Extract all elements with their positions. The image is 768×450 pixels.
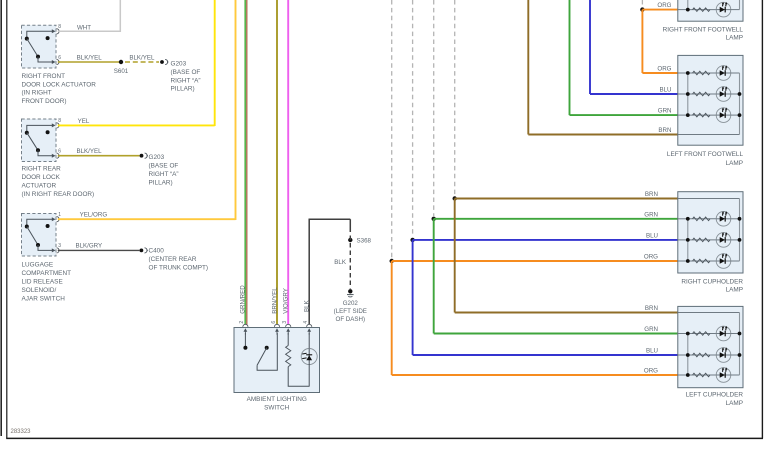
wire GRN down to left cupholder lamp [434,219,678,334]
svg-text:GRN: GRN [658,108,672,115]
svg-text:(LEFT SIDE: (LEFT SIDE [334,308,367,315]
left cupholder lamp row BLU (resistor + LED) [678,347,740,362]
lamp: right front footwell lamp (cut off at top) [678,0,743,21]
left front footwell lamp row GRN (resistor + LED) [678,108,740,123]
wire BRN to right cupholder lamp [455,198,678,200]
svg-text:G202: G202 [343,300,359,307]
right front door lock actuator pin 8 [52,29,59,34]
svg-text:BLK/YEL: BLK/YEL [76,148,102,155]
svg-text:LID RELEASE: LID RELEASE [22,279,63,286]
wire VIO/GRY vertical to ambient switch pin 3 [287,0,289,325]
wire BLK/YEL from actuator pin 6 to splice S601 [58,61,121,63]
svg-text:LUGGAGE: LUGGAGE [22,262,54,269]
svg-text:DOOR LOCK ACTUATOR: DOOR LOCK ACTUATOR [22,81,97,88]
label G203 rear (BASE OF RIGHT A PILLAR) [149,154,179,186]
wire GRN riser to left front footwell lamp [570,0,678,115]
dashed riser to ORG node (footwell) [641,0,643,7]
dashed riser wire to BRN node [454,0,456,196]
ambient switch internal switch contacts [243,333,277,370]
svg-text:BLK/YEL: BLK/YEL [77,55,103,62]
right front footwell lamp internal row ORG [678,0,740,17]
svg-text:3: 3 [58,243,61,249]
luggage compartment lid release solenoid/ajar switch internal contacts and blade [25,219,53,250]
svg-text:RIGHT REAR: RIGHT REAR [22,166,62,173]
svg-text:AMBIENT LIGHTING: AMBIENT LIGHTING [247,396,307,403]
left front footwell lamp left bus [686,71,690,117]
right cupholder lamp right bus [738,199,742,262]
lamp: right cupholder lamp [678,192,743,273]
ambient switch pin 3 [286,324,291,334]
svg-text:LAMP: LAMP [726,160,743,167]
svg-text:GRN: GRN [644,211,658,218]
wire BLU riser to left front footwell lamp [590,0,678,94]
svg-text:6: 6 [58,149,61,155]
ground G202 symbol [347,289,354,297]
svg-text:LAMP: LAMP [726,287,743,294]
node ORG junction (footwell) [640,7,644,11]
right cupholder lamp row BLU (resistor + LED) [678,232,740,247]
svg-text:6: 6 [271,321,277,324]
svg-text:SOLENOID/: SOLENOID/ [22,287,57,294]
svg-text:BLK: BLK [334,259,347,266]
svg-text:ORG: ORG [644,368,658,375]
svg-text:(IN RIGHT REAR DOOR): (IN RIGHT REAR DOOR) [22,191,95,198]
lamp: left front footwell lamp [678,55,743,145]
right cupholder lamp row GRN (resistor + LED) [678,211,740,226]
dashed riser wire to BLU node [412,0,414,237]
svg-text:BRN: BRN [645,305,658,312]
dashed riser wire to ORG node [391,0,393,258]
svg-text:LAMP: LAMP [726,35,743,42]
svg-text:FRONT DOOR): FRONT DOOR) [22,98,67,105]
label G203 (BASE OF RIGHT A PILLAR) [171,61,201,93]
svg-text:ORG: ORG [657,2,671,9]
svg-text:BLU: BLU [646,232,658,239]
svg-text:RIGHT FRONT: RIGHT FRONT [22,73,66,80]
svg-text:LEFT CUPHOLDER: LEFT CUPHOLDER [686,392,744,399]
left cupholder lamp row GRN (resistor + LED) [678,326,740,341]
left front footwell lamp row BLU (resistor + LED) [678,86,740,101]
left front footwell lamp row ORG (resistor + LED) [678,65,740,80]
svg-text:PILLAR): PILLAR) [171,86,195,93]
wire ORG to right front footwell lamp [642,9,677,11]
ground connector G203 (right rear) [140,153,148,158]
svg-text:(CENTER REAR: (CENTER REAR [149,256,197,263]
labels ORG BLU GRN BRN (left front footwell) [657,66,671,135]
svg-text:LEFT FRONT FOOTWELL: LEFT FRONT FOOTWELL [667,151,744,158]
svg-text:S601: S601 [114,68,129,75]
svg-text:COMPARTMENT: COMPARTMENT [22,270,72,277]
label: left cupholder lamp [686,392,744,407]
wire ORG to right cupholder lamp [392,260,678,262]
wire ORG down to left front footwell lamp [642,10,677,73]
svg-text:BLU: BLU [659,87,671,94]
ambient lighting switch box [234,328,320,393]
svg-text:1: 1 [58,212,61,218]
dashed riser wire to GRN node [433,0,435,216]
left cupholder lamp left bus [686,332,690,377]
left cupholder lamp right bus [738,313,742,376]
wire BRN/YEL vertical to ambient switch pin 6 [276,0,278,325]
label G202 (LEFT SIDE OF DASH) [334,300,367,323]
ambient switch pin 4 [307,324,312,334]
splice S601 [119,60,123,64]
label: ambient lighting switch [247,396,307,411]
svg-text:4: 4 [303,321,309,324]
svg-text:G203: G203 [149,154,165,161]
svg-text:LAMP: LAMP [726,400,743,407]
svg-text:VIO/GRY: VIO/GRY [283,288,290,314]
wire BLU down to left cupholder lamp [413,240,678,355]
switch: right front door lock actuator box [22,25,57,68]
right cupholder lamp row BRN feed wire [678,198,740,200]
wire BLK/GRY from solenoid pin 3 to C400 [58,249,140,251]
node ORG junction [390,259,394,263]
ambient switch pin 6 [274,324,279,334]
right cupholder lamp left bus [686,217,690,263]
svg-text:3: 3 [282,321,288,324]
left cupholder lamp row BRN feed wire [678,312,740,314]
dashed wire BLK from S368 to G202 [349,236,351,289]
svg-text:GRN/RED: GRN/RED [239,285,246,314]
svg-text:GRN: GRN [644,326,658,333]
svg-text:(BASE OF: (BASE OF [149,163,179,170]
svg-text:BLK/YEL: BLK/YEL [129,55,155,62]
svg-text:8: 8 [58,118,61,124]
svg-text:BLU: BLU [646,348,658,355]
svg-text:BLK: BLK [304,299,311,312]
label: right front door lock actuator [22,73,97,105]
label: right cupholder lamp [681,278,743,293]
luggage compartment lid release solenoid/ajar switch pin 3 [52,248,59,253]
svg-text:BLK/GRY: BLK/GRY [75,243,102,250]
svg-text:YEL: YEL [78,118,90,125]
wire YEL/ORG from solenoid pin 1 [58,0,236,220]
node BLU junction [410,238,414,242]
svg-text:(BASE OF: (BASE OF [171,69,201,76]
svg-text:YEL/ORG: YEL/ORG [80,212,108,219]
right rear door lock actuator internal contacts and blade [25,125,53,155]
label C400 (CENTER REAR OF TRUNK COMPT) [149,248,209,272]
left front footwell lamp row BRN return wire [678,134,740,136]
svg-text:BRN: BRN [645,191,658,198]
svg-text:ORG: ORG [657,66,671,73]
right rear door lock actuator pin 6 [52,153,59,158]
svg-text:283323: 283323 [11,429,32,435]
svg-text:2: 2 [239,321,245,324]
svg-text:BRN: BRN [658,127,671,134]
node GRN junction [432,217,436,221]
wire GRN/RED vertical to ambient switch pin 2 [245,0,247,325]
ambient switch internal LED [301,333,317,387]
node BRN junction [453,196,457,200]
svg-text:6: 6 [58,55,61,61]
lamp: left cupholder lamp [678,306,743,387]
svg-text:(IN RIGHT: (IN RIGHT [22,90,52,97]
ambient switch pin 2 [243,324,248,334]
svg-text:OF TRUNK COMPT): OF TRUNK COMPT) [149,265,209,272]
svg-text:AJAR SWITCH: AJAR SWITCH [22,295,66,302]
wire BLK/YEL from rear actuator pin 6 to G203 [58,155,140,157]
label: right front footwell lamp [663,26,744,41]
svg-text:OF DASH): OF DASH) [336,316,366,323]
right front door lock actuator pin 6 [52,59,59,64]
wire WHT from actuator pin 8 [58,0,121,32]
left cupholder lamp row ORG (resistor + LED) [678,367,740,382]
wire BLK from ambient switch pin 4 to splice S368 [309,219,351,324]
svg-text:DOOR LOCK: DOOR LOCK [22,174,61,181]
label: right rear door lock actuator [22,166,95,198]
switch: right rear door lock actuator box [22,119,57,162]
left front footwell lamp right bus [738,73,742,135]
wire YEL from rear actuator pin 8 [58,0,215,126]
svg-text:WHT: WHT [77,24,91,31]
splice S368 [348,238,352,242]
svg-text:RIGHT FRONT FOOTWELL: RIGHT FRONT FOOTWELL [663,26,744,33]
svg-text:8: 8 [58,24,61,30]
svg-text:RIGHT CUPHOLDER: RIGHT CUPHOLDER [681,278,743,285]
dashed wire BLK/YEL from S601 to G203 [125,61,159,63]
svg-text:ACTUATOR: ACTUATOR [22,183,57,190]
wire BRN down to left cupholder lamp [455,199,678,313]
label: left front footwell lamp [667,151,744,167]
labels BRN GRN BLU ORG (right cupholder) [644,191,658,261]
right front door lock actuator internal contacts and blade [25,31,53,62]
svg-text:SWITCH: SWITCH [264,404,290,411]
wire GRN to right cupholder lamp [434,218,678,220]
label: luggage compartment lid release solenoid/ajar switch [22,262,72,303]
svg-text:RIGHT “A”: RIGHT “A” [171,77,201,84]
svg-text:C400: C400 [149,248,165,255]
wire ORG down to left cupholder lamp [392,261,678,375]
ambient switch internal resistor [286,333,310,386]
svg-text:ORG: ORG [644,254,658,261]
svg-text:PILLAR): PILLAR) [149,179,173,186]
svg-text:G203: G203 [171,61,187,68]
switch: luggage compartment lid release solenoid/ajar switch box [22,214,57,257]
luggage compartment lid release solenoid/ajar switch pin 1 [52,217,59,222]
svg-text:S368: S368 [357,237,372,244]
wire BRN riser to left front footwell lamp [528,0,678,135]
right rear door lock actuator pin 8 [52,123,59,128]
connector C400 [140,248,148,253]
svg-text:RIGHT “A”: RIGHT “A” [149,171,179,178]
labels BRN GRN BLU ORG (left cupholder) [644,305,658,375]
svg-text:BRN/YEL: BRN/YEL [271,287,278,314]
wire BLU to right cupholder lamp [413,239,678,241]
ground connector G203 (right front) [160,59,168,64]
right cupholder lamp row ORG (resistor + LED) [678,253,740,268]
